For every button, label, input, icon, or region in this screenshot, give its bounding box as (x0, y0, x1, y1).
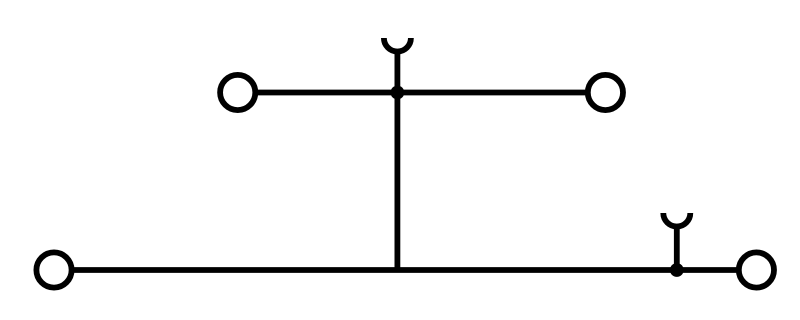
wire: bottom tap stem (674, 226, 680, 270)
tap symbol (bottom test-plug arc) (663, 213, 690, 227)
terminal circle (bottom-left clamp) (36, 252, 71, 287)
wire: top rail (238, 90, 606, 96)
wire: bottom rail (54, 267, 756, 273)
junction dot (top rail / link) (391, 86, 405, 100)
terminal circle (bottom-right clamp) (739, 252, 774, 287)
terminal circle (top-left clamp) (220, 75, 255, 110)
terminal circle (top-right clamp) (588, 75, 623, 110)
junction dot (bottom rail / tap) (670, 263, 684, 277)
tap symbol (top test-plug arc) (384, 38, 411, 52)
wire: top tap stem (394, 51, 400, 92)
wire: vertical link between levels (394, 93, 400, 271)
